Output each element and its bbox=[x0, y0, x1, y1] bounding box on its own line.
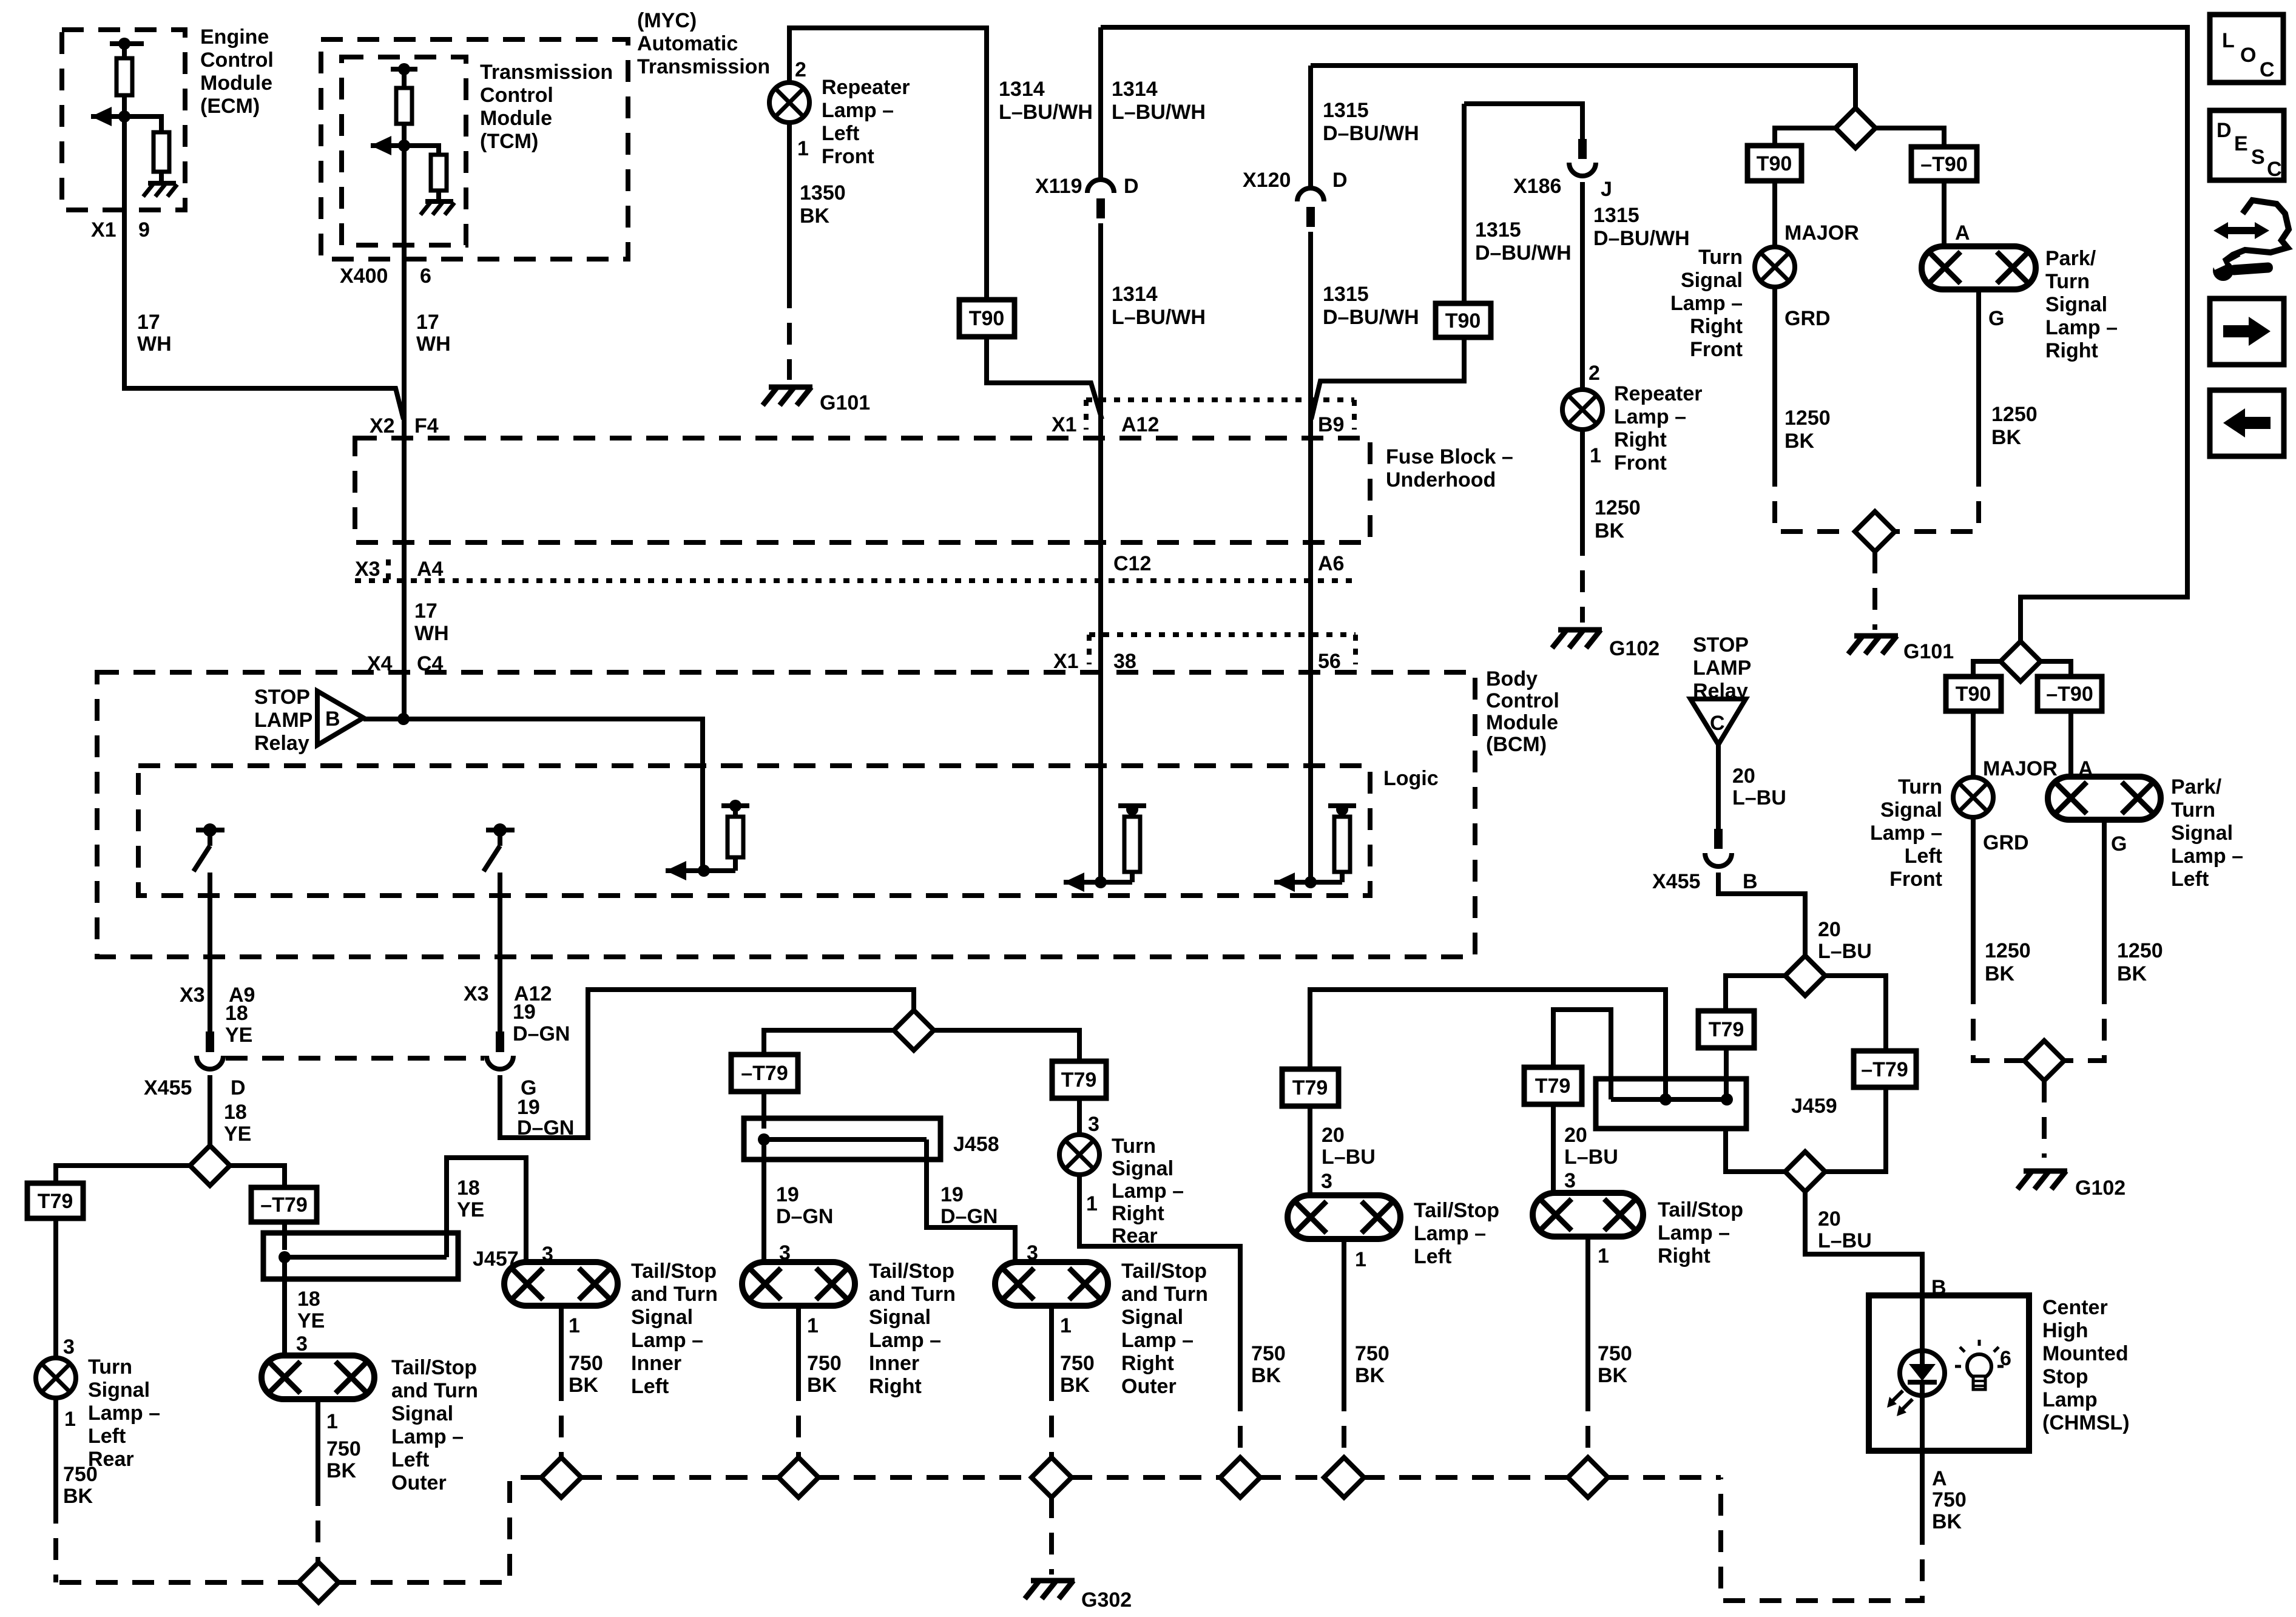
dashed wire turn lf ground bbox=[1973, 982, 2025, 1061]
svg-text:X120: X120 bbox=[1243, 169, 1291, 192]
svg-text:D: D bbox=[231, 1076, 246, 1099]
svg-text:Turn: Turn bbox=[1698, 246, 1743, 269]
splice -T90 (front right) bbox=[1911, 147, 1977, 181]
wire circuit 1314 top rail bbox=[1101, 27, 2187, 643]
svg-text:17: 17 bbox=[414, 599, 437, 623]
wire T79 to tail/stop lamp left bbox=[1308, 1106, 1312, 1197]
svg-text:T79: T79 bbox=[1292, 1076, 1328, 1099]
svg-text:Module: Module bbox=[480, 107, 552, 130]
splice diamond left rear bbox=[190, 1146, 230, 1186]
svg-text:BK: BK bbox=[1784, 430, 1815, 453]
connector X120 pin D bbox=[1297, 188, 1324, 201]
svg-text:Left: Left bbox=[631, 1375, 669, 1398]
svg-text:(BCM): (BCM) bbox=[1486, 733, 1547, 756]
svg-text:BK: BK bbox=[326, 1459, 357, 1482]
svg-text:750: 750 bbox=[1060, 1352, 1095, 1375]
svg-text:Repeater: Repeater bbox=[1614, 382, 1703, 405]
wire circuit 1315 rail to front lamps bbox=[1311, 66, 1855, 109]
wire long feed to tail/stop left T79 bbox=[1310, 990, 1666, 1099]
svg-text:750: 750 bbox=[63, 1463, 98, 1486]
svg-text:Left: Left bbox=[1905, 845, 1942, 868]
center high mounted stop lamp CHMSL box bbox=[1869, 1295, 2029, 1451]
dashed ground wire repeater left bbox=[787, 286, 792, 380]
svg-text:750: 750 bbox=[1355, 1342, 1389, 1365]
svg-text:GRD: GRD bbox=[1784, 307, 1831, 330]
svg-text:Left: Left bbox=[88, 1425, 126, 1448]
wire diamond to T79 left rear bbox=[56, 1166, 191, 1183]
dashed ground wire repeater right bbox=[1580, 534, 1585, 623]
svg-text:–T79: –T79 bbox=[260, 1193, 308, 1217]
svg-text:T90: T90 bbox=[969, 307, 1005, 330]
fine dotted connector line X1 (A12/B9) bbox=[1086, 397, 1354, 402]
legend back arrow box bbox=[2210, 390, 2284, 456]
svg-text:T79: T79 bbox=[1709, 1018, 1744, 1041]
legend DESC box bbox=[2210, 110, 2284, 180]
svg-text:1250: 1250 bbox=[1985, 939, 2031, 962]
svg-text:G101: G101 bbox=[820, 391, 870, 414]
svg-text:Control: Control bbox=[1486, 689, 1559, 712]
splice -T79 (left outer) bbox=[251, 1187, 317, 1222]
fuse block underhood box bbox=[355, 438, 1370, 542]
svg-text:1314: 1314 bbox=[1112, 283, 1158, 306]
svg-text:Engine: Engine bbox=[200, 25, 269, 49]
svg-text:Turn: Turn bbox=[88, 1355, 132, 1379]
dashed wire inner left to bus bbox=[559, 1379, 564, 1459]
svg-text:C12: C12 bbox=[1113, 552, 1151, 575]
svg-text:X3: X3 bbox=[464, 982, 489, 1005]
fine dotted connector line X3-A4 bbox=[386, 559, 391, 581]
svg-text:3: 3 bbox=[1564, 1169, 1576, 1192]
wire T90 to connector B9 bbox=[1311, 337, 1464, 419]
svg-text:BK: BK bbox=[1932, 1510, 1962, 1533]
svg-text:X186: X186 bbox=[1513, 175, 1561, 198]
svg-text:Inner: Inner bbox=[631, 1352, 681, 1375]
dashed ground bus to left rear bbox=[56, 1580, 300, 1585]
svg-text:Right: Right bbox=[1690, 315, 1743, 338]
svg-text:Tail/Stop: Tail/Stop bbox=[1414, 1199, 1499, 1222]
svg-text:Right: Right bbox=[1614, 428, 1667, 451]
wire T79 to turn lamp left rear bbox=[53, 1218, 58, 1358]
BCM driver circuit 1314 bbox=[1064, 873, 1084, 892]
svg-text:Left: Left bbox=[2171, 868, 2209, 891]
svg-text:J458: J458 bbox=[953, 1133, 999, 1156]
svg-text:(TCM): (TCM) bbox=[480, 130, 538, 153]
dashed wire park/turn l ground bbox=[2064, 982, 2104, 1061]
wire X120 column to BCM pin 56 bbox=[1308, 232, 1313, 882]
svg-text:750: 750 bbox=[807, 1352, 842, 1375]
svg-text:(MYC): (MYC) bbox=[637, 9, 697, 32]
svg-text:Transmission: Transmission bbox=[480, 61, 613, 84]
svg-text:D–GN: D–GN bbox=[776, 1205, 833, 1228]
splice T90 (repeater right) bbox=[1436, 303, 1491, 337]
wire T79 into J459 bbox=[1724, 1048, 1729, 1099]
splice diamond front right bbox=[1835, 108, 1876, 148]
svg-text:1314: 1314 bbox=[999, 78, 1045, 101]
park/turn signal lamp left bbox=[2048, 777, 2161, 820]
connector X186 pin J bbox=[1578, 139, 1587, 159]
wire relay C to X455-B bbox=[1716, 744, 1721, 829]
svg-text:D–GN: D–GN bbox=[513, 1022, 570, 1045]
ground G302 bbox=[1031, 1578, 1075, 1584]
wire TCM output 17 WH down to BCM bbox=[402, 146, 407, 719]
svg-text:Signal: Signal bbox=[391, 1402, 453, 1425]
ECM internal resistor to ground bbox=[124, 116, 161, 132]
splice diamond ground inner left bbox=[541, 1457, 581, 1497]
dashed wire to G101 right bbox=[1872, 552, 1877, 630]
wire 750 BK CHMSL bbox=[1920, 1451, 1925, 1523]
wire J459 to tail/stop right T79 bbox=[1553, 1010, 1611, 1099]
svg-text:Signal: Signal bbox=[88, 1379, 150, 1402]
wire 750 BK tail left bbox=[1342, 1239, 1346, 1389]
svg-text:L–BU/WH: L–BU/WH bbox=[999, 101, 1093, 124]
svg-text:X1: X1 bbox=[91, 218, 116, 241]
svg-text:YE: YE bbox=[457, 1198, 484, 1221]
tail/stop lamp left bbox=[1288, 1195, 1400, 1239]
wire switch to X3-A9 bbox=[208, 873, 212, 1031]
svg-text:1: 1 bbox=[569, 1314, 580, 1337]
svg-text:STOP: STOP bbox=[1693, 633, 1749, 657]
wire 1250 BK park/turn right bbox=[1976, 289, 1981, 465]
svg-text:D–BU/WH: D–BU/WH bbox=[1475, 241, 1572, 265]
legend vehicle navigation icon bbox=[2213, 222, 2269, 239]
svg-text:and Turn: and Turn bbox=[869, 1283, 956, 1306]
svg-text:X455: X455 bbox=[1652, 870, 1700, 893]
svg-text:Tail/Stop: Tail/Stop bbox=[869, 1260, 954, 1283]
svg-text:LAMP: LAMP bbox=[1693, 657, 1751, 680]
connector X119 pin D bbox=[1087, 180, 1114, 193]
svg-text:BK: BK bbox=[1355, 1364, 1385, 1387]
TCM internal output driver arrow bbox=[371, 136, 391, 155]
splice diamond rear right feed bbox=[894, 1010, 934, 1050]
svg-text:1250: 1250 bbox=[1595, 496, 1641, 519]
svg-text:T79: T79 bbox=[38, 1190, 73, 1213]
svg-text:20: 20 bbox=[1818, 918, 1841, 941]
splice T90 (front left) bbox=[1946, 677, 2001, 711]
svg-text:Outer: Outer bbox=[1121, 1375, 1177, 1398]
wire 750 BK tail right bbox=[1585, 1237, 1590, 1389]
splice T79 (tail/stop right) bbox=[1524, 1067, 1582, 1104]
svg-text:A4: A4 bbox=[417, 558, 444, 581]
dashed wire right outer to bus bbox=[1049, 1379, 1054, 1459]
dashed wire CHMSL to ground bus bbox=[1721, 1477, 1922, 1601]
svg-text:D: D bbox=[1332, 169, 1348, 192]
svg-text:Lamp –: Lamp – bbox=[2045, 316, 2118, 339]
svg-text:S: S bbox=[2251, 146, 2265, 169]
wire diamond to -T90 front left bbox=[2039, 661, 2071, 677]
svg-text:Signal: Signal bbox=[869, 1306, 931, 1329]
svg-text:BK: BK bbox=[1595, 519, 1625, 542]
svg-text:Lamp –: Lamp – bbox=[822, 99, 894, 122]
splice pack J459 bbox=[1596, 1079, 1746, 1129]
svg-text:O: O bbox=[2240, 44, 2256, 67]
svg-text:1: 1 bbox=[797, 137, 809, 160]
svg-text:A6: A6 bbox=[1318, 552, 1344, 575]
svg-text:750: 750 bbox=[1598, 1342, 1632, 1365]
svg-text:(ECM): (ECM) bbox=[200, 95, 260, 118]
splice -T90 (front left) bbox=[2038, 677, 2102, 711]
svg-text:750: 750 bbox=[569, 1352, 603, 1375]
turn signal lamp left rear bbox=[36, 1358, 76, 1398]
ground G101 (right mid) bbox=[1854, 633, 1898, 639]
CHMSL output wire bbox=[1920, 1396, 1925, 1451]
svg-text:WH: WH bbox=[137, 333, 172, 356]
svg-text:Lamp –: Lamp – bbox=[1112, 1180, 1184, 1203]
svg-text:1250: 1250 bbox=[1784, 407, 1831, 430]
BCM driver circuit 1315 bbox=[1274, 873, 1295, 892]
svg-text:Front: Front bbox=[1614, 451, 1667, 474]
wire switch to X3-A12 bbox=[498, 873, 502, 1031]
svg-text:D: D bbox=[1124, 175, 1139, 198]
svg-text:B: B bbox=[325, 707, 340, 731]
svg-text:Turn: Turn bbox=[1112, 1135, 1156, 1158]
stop lamp relay output C triangle bbox=[1690, 699, 1746, 744]
wire 1250 BK repeater right bbox=[1580, 429, 1585, 534]
svg-text:STOP: STOP bbox=[254, 686, 310, 709]
wire X119 column upper bbox=[1098, 27, 1103, 181]
svg-text:750: 750 bbox=[1932, 1488, 1967, 1511]
svg-text:Signal: Signal bbox=[2171, 822, 2233, 845]
svg-text:Control: Control bbox=[200, 49, 274, 72]
svg-text:Relay: Relay bbox=[254, 732, 309, 755]
stop lamp relay output B triangle bbox=[317, 691, 363, 745]
svg-text:Tail/Stop: Tail/Stop bbox=[1121, 1260, 1207, 1283]
svg-text:(CHMSL): (CHMSL) bbox=[2042, 1411, 2130, 1434]
splice pack J458 bbox=[744, 1118, 940, 1160]
wire diamond to -T90 front right bbox=[1874, 128, 1944, 147]
wire J457 to inner left lamp (18 YE riser) bbox=[447, 1158, 526, 1262]
splice T90 (repeater left) bbox=[959, 300, 1015, 337]
svg-text:19: 19 bbox=[940, 1183, 964, 1206]
wire branch 1315 to X186 bbox=[1464, 104, 1582, 139]
turn signal lamp right rear bbox=[1059, 1135, 1099, 1175]
wire diamond to -T79 stop bbox=[1824, 976, 1886, 1051]
svg-text:Right: Right bbox=[1658, 1244, 1710, 1268]
wire X119 column to BCM pin 38 bbox=[1098, 223, 1103, 882]
svg-text:Lamp –: Lamp – bbox=[1870, 822, 1942, 845]
svg-text:L–BU/WH: L–BU/WH bbox=[1112, 101, 1206, 124]
wire -T90 to park/turn lamp right bbox=[1942, 181, 1947, 246]
svg-text:BK: BK bbox=[63, 1485, 93, 1508]
svg-text:–T90: –T90 bbox=[2046, 683, 2093, 706]
svg-text:Lamp –: Lamp – bbox=[1658, 1221, 1730, 1244]
tail/stop and turn signal lamp inner left bbox=[504, 1262, 618, 1306]
svg-text:MAJOR: MAJOR bbox=[1983, 757, 2058, 780]
svg-text:BK: BK bbox=[807, 1374, 837, 1397]
TCM internal pull-up resistor bbox=[391, 67, 417, 72]
svg-text:D–BU/WH: D–BU/WH bbox=[1323, 122, 1419, 145]
J457 internal wire bbox=[285, 1255, 447, 1260]
svg-text:T90: T90 bbox=[1757, 152, 1792, 175]
wire relay B to output driver bbox=[363, 719, 703, 871]
svg-text:20: 20 bbox=[1818, 1207, 1841, 1230]
svg-text:Underhood: Underhood bbox=[1386, 468, 1496, 491]
svg-text:X1: X1 bbox=[1053, 650, 1079, 673]
splice diamond ground turn rr bbox=[1220, 1457, 1260, 1497]
svg-text:Module: Module bbox=[200, 72, 272, 95]
splice diamond ground front left bbox=[2024, 1041, 2064, 1081]
tail/stop and turn signal lamp left outer bbox=[262, 1355, 374, 1399]
wire 750 BK turn left rear bbox=[53, 1398, 58, 1502]
wire T90 to turn lamp left front bbox=[1971, 711, 1976, 777]
svg-text:1315: 1315 bbox=[1323, 283, 1369, 306]
BCM stop lamp output driver bbox=[666, 861, 686, 880]
svg-text:20: 20 bbox=[1564, 1124, 1587, 1147]
svg-text:2: 2 bbox=[1589, 362, 1600, 385]
legend LOC box bbox=[2210, 15, 2283, 83]
transmission control module TCM box bbox=[342, 57, 466, 245]
svg-text:Repeater: Repeater bbox=[822, 76, 910, 99]
svg-text:19: 19 bbox=[517, 1096, 540, 1119]
svg-text:A: A bbox=[1955, 221, 1970, 245]
svg-text:Tail/Stop: Tail/Stop bbox=[1658, 1198, 1743, 1221]
splice diamond ground tail left bbox=[1324, 1457, 1364, 1497]
svg-text:Right: Right bbox=[2045, 339, 2098, 362]
svg-text:G302: G302 bbox=[1081, 1588, 1132, 1612]
svg-text:Turn: Turn bbox=[1898, 775, 1942, 798]
turn signal lamp right front bbox=[1755, 247, 1795, 287]
CHMSL wire through box bbox=[1920, 1295, 1925, 1351]
svg-text:YE: YE bbox=[297, 1309, 325, 1332]
splice diamond ground tail right bbox=[1568, 1457, 1608, 1497]
wire -T79 into J458 bbox=[761, 1092, 766, 1129]
svg-text:Turn: Turn bbox=[2171, 798, 2215, 822]
svg-text:Lamp –: Lamp – bbox=[391, 1425, 464, 1448]
wire X120 column upper bbox=[1308, 66, 1313, 189]
svg-text:Lamp –: Lamp – bbox=[1121, 1329, 1194, 1352]
dashed ground bus corner (left) bbox=[337, 1477, 542, 1582]
svg-text:BK: BK bbox=[1598, 1364, 1628, 1387]
svg-text:Inner: Inner bbox=[869, 1352, 919, 1375]
svg-text:Left: Left bbox=[1414, 1245, 1451, 1268]
svg-text:Signal: Signal bbox=[1681, 269, 1743, 292]
svg-text:1: 1 bbox=[326, 1410, 338, 1433]
svg-text:38: 38 bbox=[1113, 650, 1136, 673]
svg-text:6: 6 bbox=[2000, 1347, 2011, 1370]
svg-text:3: 3 bbox=[1088, 1113, 1099, 1136]
svg-text:19: 19 bbox=[776, 1183, 799, 1206]
svg-text:Park/: Park/ bbox=[2171, 775, 2222, 798]
wire T79 to turn lamp right rear bbox=[1077, 1098, 1082, 1135]
svg-text:Left: Left bbox=[391, 1448, 429, 1471]
svg-text:F4: F4 bbox=[414, 414, 439, 437]
svg-text:Lamp: Lamp bbox=[2042, 1388, 2098, 1411]
wire J457 down to left outer lamp bbox=[282, 1257, 287, 1358]
connector X455 pin D bbox=[206, 1031, 214, 1052]
svg-text:56: 56 bbox=[1318, 650, 1341, 673]
wire diamond to T90 front right bbox=[1775, 128, 1837, 146]
wire repeater lamp left feed from top rail bbox=[789, 28, 987, 300]
svg-text:X1: X1 bbox=[1052, 413, 1077, 436]
wire 750 BK inner right bbox=[796, 1306, 801, 1379]
wire 1250 BK park/turn left bbox=[2102, 820, 2107, 982]
fine dotted connector line X1 (38/56) bbox=[1089, 632, 1356, 637]
svg-text:BK: BK bbox=[2117, 962, 2147, 985]
svg-text:Mounted: Mounted bbox=[2042, 1342, 2129, 1365]
svg-text:L–BU: L–BU bbox=[1732, 786, 1786, 809]
svg-text:Stop: Stop bbox=[2042, 1365, 2088, 1388]
wire 750 BK turn right rear bbox=[1079, 1175, 1240, 1389]
connector X455 pin B bbox=[1714, 829, 1723, 849]
svg-text:Tail/Stop: Tail/Stop bbox=[391, 1356, 477, 1379]
svg-text:1250: 1250 bbox=[2117, 939, 2163, 962]
svg-text:C: C bbox=[2267, 158, 2282, 181]
svg-text:B9: B9 bbox=[1318, 413, 1344, 436]
svg-text:T90: T90 bbox=[1445, 309, 1481, 333]
splice diamond stop feed upper bbox=[1785, 956, 1825, 996]
svg-text:X455: X455 bbox=[144, 1076, 192, 1099]
repeater lamp left front bbox=[769, 83, 809, 123]
wire 750 BK right outer bbox=[1049, 1306, 1054, 1379]
svg-text:Signal: Signal bbox=[2045, 293, 2107, 316]
svg-text:YE: YE bbox=[225, 1024, 252, 1047]
svg-text:18: 18 bbox=[297, 1288, 320, 1311]
wire X455-D to diamond bbox=[208, 1075, 212, 1147]
repeater lamp right front bbox=[1562, 390, 1602, 430]
ground G102 (front left) bbox=[2024, 1169, 2067, 1174]
dashed wire turn lr to ground bus bbox=[53, 1502, 58, 1582]
svg-text:750: 750 bbox=[1251, 1342, 1286, 1365]
svg-text:2: 2 bbox=[795, 58, 806, 81]
svg-text:Logic: Logic bbox=[1383, 767, 1439, 790]
svg-text:1315: 1315 bbox=[1475, 218, 1521, 241]
svg-text:750: 750 bbox=[326, 1437, 361, 1460]
park/turn signal lamp right bbox=[1922, 246, 2036, 289]
svg-text:Lamp –: Lamp – bbox=[1614, 405, 1686, 428]
svg-text:17: 17 bbox=[416, 311, 439, 334]
svg-text:Right: Right bbox=[1121, 1352, 1174, 1375]
svg-text:19: 19 bbox=[513, 1001, 536, 1024]
svg-text:D–BU/WH: D–BU/WH bbox=[1323, 306, 1419, 329]
turn signal lamp left front bbox=[1953, 777, 1993, 817]
svg-text:and Turn: and Turn bbox=[391, 1379, 478, 1402]
svg-text:Outer: Outer bbox=[391, 1471, 447, 1494]
svg-text:BK: BK bbox=[1991, 426, 2022, 449]
splice diamond stop feed lower bbox=[1785, 1152, 1825, 1192]
svg-text:Lamp –: Lamp – bbox=[631, 1329, 703, 1352]
svg-text:1: 1 bbox=[1086, 1192, 1098, 1215]
svg-text:1314: 1314 bbox=[1112, 78, 1158, 101]
svg-text:T79: T79 bbox=[1535, 1075, 1571, 1098]
wire -T90 to park/turn lamp left bbox=[2068, 711, 2073, 777]
svg-text:Center: Center bbox=[2042, 1296, 2108, 1319]
svg-text:18: 18 bbox=[457, 1176, 480, 1200]
splice diamond ground right outer bbox=[1032, 1457, 1072, 1497]
svg-text:17: 17 bbox=[137, 311, 160, 334]
svg-text:1: 1 bbox=[1355, 1248, 1366, 1271]
dashed wire turn rf ground bbox=[1775, 465, 1855, 532]
svg-text:YE: YE bbox=[224, 1122, 251, 1146]
svg-text:18: 18 bbox=[224, 1101, 247, 1124]
svg-text:Signal: Signal bbox=[1121, 1306, 1183, 1329]
svg-text:X3: X3 bbox=[355, 558, 380, 581]
svg-text:GRD: GRD bbox=[1983, 831, 2029, 854]
dashed wire tail left to bus bbox=[1342, 1389, 1346, 1459]
wire X186 left leg bbox=[1462, 104, 1467, 303]
svg-text:Front: Front bbox=[1690, 338, 1743, 361]
svg-text:3: 3 bbox=[63, 1335, 75, 1359]
connector X455 pin G bbox=[496, 1031, 504, 1052]
svg-text:T90: T90 bbox=[1956, 683, 1991, 706]
dashed wire left outer to bus bbox=[316, 1484, 320, 1564]
svg-text:1: 1 bbox=[1598, 1244, 1609, 1268]
svg-text:Right: Right bbox=[869, 1375, 922, 1398]
svg-text:Right: Right bbox=[1112, 1202, 1164, 1225]
svg-text:BK: BK bbox=[1251, 1364, 1281, 1387]
svg-text:1: 1 bbox=[1060, 1314, 1072, 1337]
splice pack J457 bbox=[263, 1233, 458, 1279]
svg-text:L: L bbox=[2222, 29, 2235, 52]
svg-text:3: 3 bbox=[1321, 1170, 1332, 1193]
